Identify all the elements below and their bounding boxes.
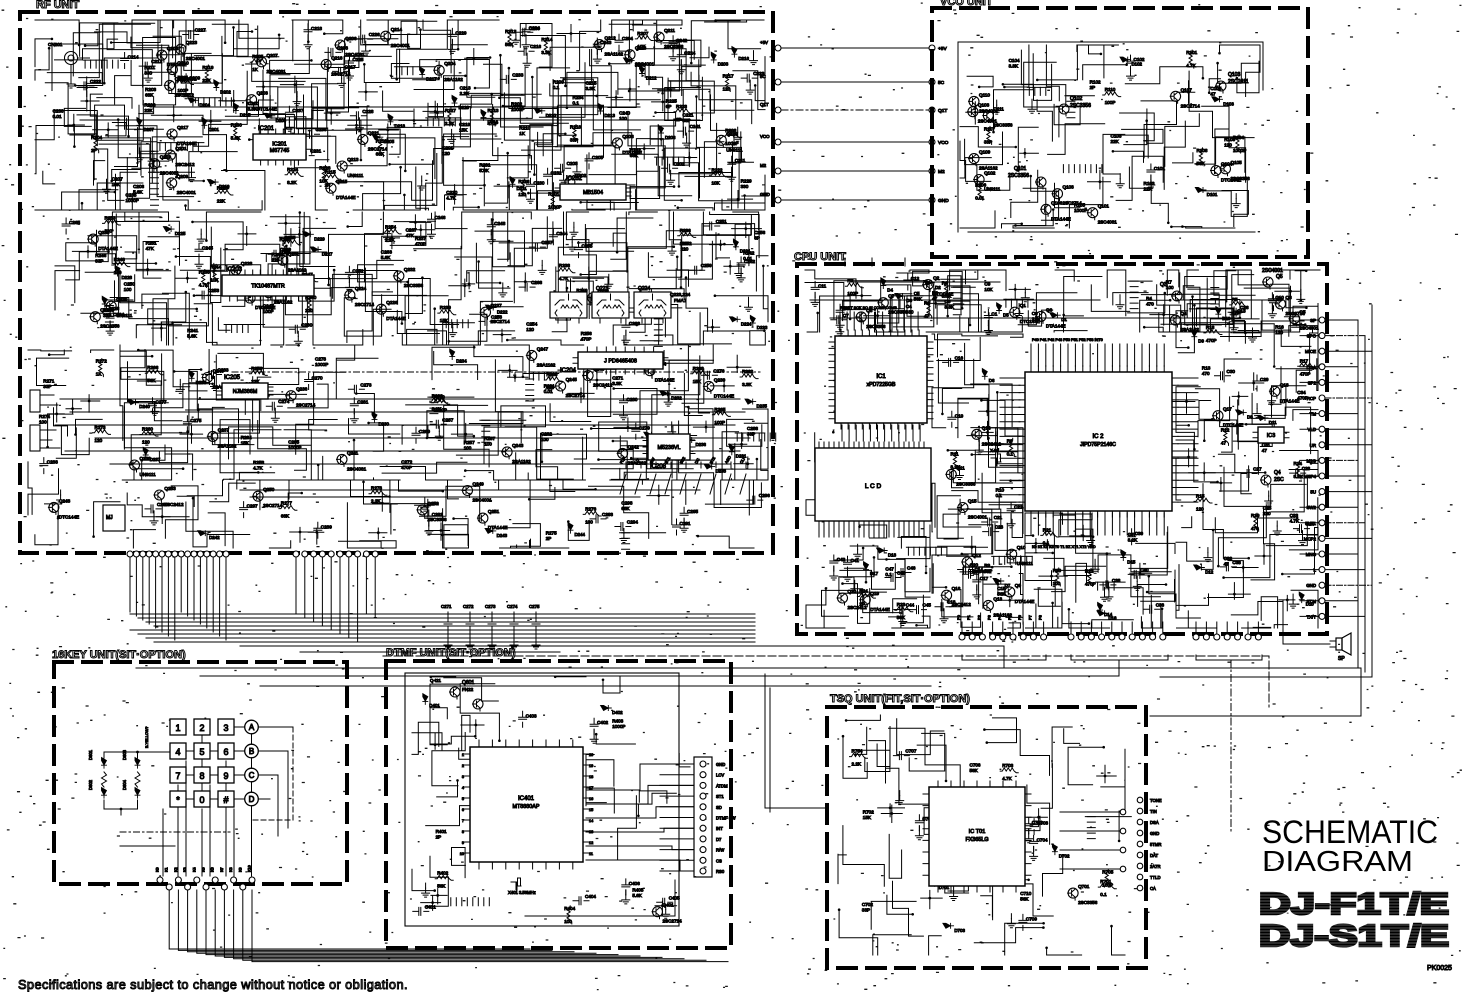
wire xyxy=(586,760,614,786)
capacitor C29 xyxy=(1253,375,1261,391)
svg-text:Q247: Q247 xyxy=(537,346,549,351)
diode D6 xyxy=(982,369,987,380)
wire xyxy=(115,275,135,302)
capacitor C40 xyxy=(1128,570,1144,578)
wire xyxy=(35,518,58,545)
wire xyxy=(432,733,465,786)
svg-text:D228: D228 xyxy=(122,275,133,280)
svg-text:C216: C216 xyxy=(530,44,541,49)
wire xyxy=(756,256,768,291)
IC MB1504 xyxy=(555,184,631,200)
wire xyxy=(150,106,640,108)
wire xyxy=(1222,423,1233,452)
svg-text:R275: R275 xyxy=(546,531,557,536)
wire xyxy=(143,38,176,88)
wire xyxy=(194,304,260,345)
wire xyxy=(339,541,382,548)
svg-text:120: 120 xyxy=(95,438,103,443)
wire xyxy=(534,126,551,175)
wire xyxy=(840,564,895,590)
ground xyxy=(896,796,904,805)
ground xyxy=(940,614,948,623)
svg-text:47K: 47K xyxy=(406,233,415,238)
svg-text:2SC4001: 2SC4001 xyxy=(968,515,988,520)
svg-text:33P: 33P xyxy=(95,259,103,264)
wire xyxy=(558,49,591,135)
wire xyxy=(567,72,618,107)
svg-text:C205: C205 xyxy=(592,155,603,160)
wire xyxy=(359,195,405,210)
wire xyxy=(561,277,640,308)
diode D603 xyxy=(122,749,140,768)
wire xyxy=(184,53,211,65)
svg-text:Q245: Q245 xyxy=(566,377,578,382)
svg-text:R215: R215 xyxy=(325,170,336,175)
svg-text:47: 47 xyxy=(1262,448,1268,453)
wire xyxy=(116,126,157,169)
node xyxy=(436,894,439,897)
wire xyxy=(1221,321,1305,337)
pin comb xyxy=(1098,582,1115,590)
svg-text:TONE: TONE xyxy=(1150,798,1162,803)
transistor Q206 xyxy=(335,40,345,50)
wire xyxy=(889,834,901,878)
pin comb xyxy=(585,297,602,305)
wire xyxy=(259,111,323,150)
wire xyxy=(258,421,307,471)
svg-text:2SC3356: 2SC3356 xyxy=(427,517,447,522)
ground xyxy=(1133,581,1141,590)
wire xyxy=(428,509,468,548)
ground xyxy=(605,279,613,288)
wire xyxy=(613,441,667,480)
pin comb xyxy=(446,320,468,328)
wire xyxy=(698,536,754,548)
wire xyxy=(106,123,126,136)
svg-text:1000P: 1000P xyxy=(612,724,625,729)
wire xyxy=(437,780,458,797)
resistor R224 xyxy=(285,172,303,177)
wire xyxy=(288,384,328,408)
connector column CN401 xyxy=(694,757,712,877)
wire xyxy=(664,345,713,363)
svg-text:4.7K: 4.7K xyxy=(559,276,569,281)
svg-text:R269: R269 xyxy=(546,372,557,377)
jack J202 xyxy=(30,390,58,412)
wire xyxy=(239,20,284,38)
wire bundle to bus xyxy=(129,557,131,612)
svg-text:2.2K: 2.2K xyxy=(385,237,395,242)
svg-text:16: 16 xyxy=(589,797,593,801)
wire xyxy=(493,105,532,170)
svg-text:Q9: Q9 xyxy=(1015,583,1022,588)
wire xyxy=(678,208,713,210)
svg-text:P3: P3 xyxy=(987,614,992,620)
svg-text:Q220: Q220 xyxy=(726,131,738,136)
svg-text:C42: C42 xyxy=(837,557,846,562)
wire xyxy=(1262,300,1291,330)
svg-text:R253: R253 xyxy=(105,215,116,220)
wire xyxy=(138,350,190,387)
wire xyxy=(629,43,679,91)
svg-text:NJM386M: NJM386M xyxy=(233,389,258,395)
wire xyxy=(499,480,530,528)
transistor Q16 xyxy=(942,590,952,600)
svg-text:D604: D604 xyxy=(122,779,127,790)
resistor R255 xyxy=(282,237,287,255)
wire xyxy=(1141,273,1179,295)
svg-text:100: 100 xyxy=(464,445,472,450)
wire xyxy=(1176,387,1200,426)
svg-text:J PD6465408: J PD6465408 xyxy=(604,359,637,365)
pin comb xyxy=(85,60,118,68)
svg-text:1000P: 1000P xyxy=(725,141,738,146)
wire xyxy=(1238,400,1259,474)
node xyxy=(391,237,394,240)
svg-text:R254: R254 xyxy=(385,224,396,229)
node xyxy=(661,101,664,104)
resistor R12 xyxy=(1224,427,1229,445)
wire xyxy=(686,278,708,332)
capacitor C249 xyxy=(268,250,284,258)
pin labels IC1 bottom xyxy=(842,425,920,441)
svg-text:1K: 1K xyxy=(252,67,259,72)
wire xyxy=(373,309,391,345)
svg-text:56K: 56K xyxy=(897,615,906,620)
svg-text:Q106: Q106 xyxy=(1051,200,1063,205)
wire xyxy=(64,108,91,126)
svg-text:2SC3356: 2SC3356 xyxy=(993,123,1013,128)
wire xyxy=(471,95,524,108)
transistor Q207 xyxy=(257,57,267,67)
transistor Q12 xyxy=(962,557,972,567)
node xyxy=(986,410,989,413)
wire xyxy=(111,20,160,43)
wire xyxy=(455,257,523,307)
diode D210 xyxy=(534,108,545,113)
wire xyxy=(1296,370,1312,392)
wire xyxy=(509,68,557,108)
wire xyxy=(220,420,275,473)
wire xyxy=(1054,529,1093,570)
node xyxy=(245,233,248,236)
capacitor C260 xyxy=(289,325,305,333)
svg-text:C5: C5 xyxy=(914,291,920,296)
wire xyxy=(212,24,248,56)
wire xyxy=(1209,79,1220,93)
node xyxy=(860,294,863,297)
wire xyxy=(822,580,855,616)
node xyxy=(1014,288,1017,291)
key switch 7 xyxy=(170,767,186,783)
wire xyxy=(453,207,478,210)
wire xyxy=(124,403,168,449)
svg-text:DTC144E: DTC144E xyxy=(255,305,275,310)
ground xyxy=(422,888,430,897)
diode D225 xyxy=(163,227,174,232)
wire xyxy=(406,278,423,314)
capacitor C703 xyxy=(941,800,949,816)
wire xyxy=(1220,466,1249,491)
transistor Q210 xyxy=(167,65,177,75)
svg-text:C: C xyxy=(249,771,255,780)
svg-text:K3: K3 xyxy=(183,867,187,872)
wire xyxy=(965,132,1003,165)
wire xyxy=(839,557,874,593)
svg-text:C406: C406 xyxy=(629,881,640,886)
transistor Q252 xyxy=(417,505,427,515)
capacitor C35 xyxy=(1220,563,1236,571)
svg-text:D18: D18 xyxy=(888,553,897,558)
bus wire to CPU xyxy=(240,646,1004,663)
svg-text:2: 2 xyxy=(462,764,464,768)
svg-text:22K: 22K xyxy=(1111,139,1120,144)
resistor R265 xyxy=(712,412,730,417)
wire xyxy=(149,350,210,433)
wire xyxy=(330,260,403,296)
wire xyxy=(148,237,179,266)
ground xyxy=(896,304,904,313)
svg-text:UN9111: UN9111 xyxy=(984,187,1001,192)
wire xyxy=(120,270,167,345)
wire xyxy=(1129,527,1168,569)
svg-text:220: 220 xyxy=(681,246,689,251)
wire xyxy=(664,148,699,200)
wire xyxy=(728,20,763,49)
ground xyxy=(271,413,279,422)
svg-text:R23: R23 xyxy=(897,602,906,607)
resistor R217 xyxy=(725,74,730,92)
wire xyxy=(1107,554,1143,615)
diode D232 xyxy=(660,391,671,396)
svg-text:2SC2714: 2SC2714 xyxy=(663,919,683,924)
svg-text:M5238VL: M5238VL xyxy=(657,445,680,451)
svg-text:R255: R255 xyxy=(280,237,291,242)
wire xyxy=(633,20,683,31)
wire xyxy=(292,20,308,42)
wire xyxy=(407,329,437,345)
svg-text:C279: C279 xyxy=(639,425,650,430)
wire xyxy=(189,152,237,181)
wire xyxy=(763,266,768,322)
wire xyxy=(952,491,1016,503)
wire xyxy=(1159,287,1200,332)
svg-text:C28: C28 xyxy=(1302,466,1311,471)
capacitor C230 xyxy=(527,178,535,194)
wire xyxy=(432,347,474,379)
wire xyxy=(948,276,961,316)
wire xyxy=(426,786,470,826)
wire xyxy=(1019,574,1023,625)
wire from C xyxy=(258,775,278,836)
ground xyxy=(570,227,578,236)
capacitor C402 xyxy=(590,718,598,734)
wire xyxy=(806,500,831,516)
wire xyxy=(443,331,515,345)
wire xyxy=(1290,270,1302,279)
wire xyxy=(131,45,162,86)
wire xyxy=(745,175,765,210)
wire xyxy=(122,407,171,480)
wire xyxy=(430,684,460,744)
wire xyxy=(237,480,260,510)
wire xyxy=(52,44,103,91)
capacitor C405 xyxy=(657,898,673,906)
pin comb xyxy=(908,547,947,555)
svg-text:D402: D402 xyxy=(612,710,623,715)
wire xyxy=(250,496,640,498)
capacitor C259 xyxy=(689,266,705,274)
wire xyxy=(336,358,378,398)
wire xyxy=(363,167,401,210)
svg-text:D16: D16 xyxy=(1108,615,1117,620)
wire xyxy=(629,20,665,51)
wire xyxy=(859,750,890,771)
node xyxy=(440,529,443,532)
node xyxy=(161,515,164,518)
ground xyxy=(1015,309,1023,318)
svg-text:DTA144E: DTA144E xyxy=(1015,599,1035,604)
diode D203 xyxy=(711,52,716,63)
amplifier cell Q222 xyxy=(592,292,629,323)
capacitor C245 xyxy=(195,243,203,259)
resistor R230 xyxy=(234,123,239,141)
svg-text:C270: C270 xyxy=(312,376,323,381)
svg-text:R256: R256 xyxy=(581,331,592,336)
node xyxy=(434,743,437,746)
transistor Q219 xyxy=(150,159,160,169)
transistor Q238 xyxy=(130,460,140,470)
svg-text:330: 330 xyxy=(741,184,749,189)
svg-text:C253: C253 xyxy=(208,288,219,293)
wire xyxy=(327,60,348,112)
svg-text:2SC2714: 2SC2714 xyxy=(1063,201,1083,206)
svg-text:C7: C7 xyxy=(843,313,849,318)
svg-text:470P: 470P xyxy=(401,465,412,470)
svg-text:Q103: Q103 xyxy=(1228,72,1240,78)
svg-text:Q232: Q232 xyxy=(404,267,416,272)
node xyxy=(453,193,456,196)
key switch 6 xyxy=(218,743,234,759)
wire xyxy=(647,436,697,469)
wire dash-dot xyxy=(120,831,230,833)
ground xyxy=(103,184,111,193)
wire xyxy=(1184,309,1233,325)
ground xyxy=(1230,323,1238,332)
diode D202 xyxy=(214,80,219,91)
capacitor C224 xyxy=(677,49,685,65)
wire xyxy=(943,499,981,527)
svg-text:470P: 470P xyxy=(1085,581,1096,586)
diode D217 xyxy=(420,67,425,78)
svg-text:Q3: Q3 xyxy=(1160,282,1167,288)
wire xyxy=(49,350,64,355)
wire xyxy=(944,286,970,325)
wire xyxy=(391,64,438,79)
pin labels IC2 bottom xyxy=(1031,513,1164,535)
bus wires xyxy=(130,613,755,615)
wire xyxy=(732,479,769,480)
wire xyxy=(938,359,968,403)
wire xyxy=(94,161,105,186)
capacitor C708 xyxy=(1030,819,1038,835)
wire xyxy=(1291,590,1318,628)
capacitor C709 xyxy=(1019,914,1027,930)
node xyxy=(472,57,475,60)
wire xyxy=(938,334,998,357)
wire xyxy=(674,212,725,244)
transistor Q202 xyxy=(565,177,575,187)
wire xyxy=(710,212,760,258)
wire xyxy=(1035,617,1058,628)
wire xyxy=(428,331,476,345)
wire xyxy=(28,462,32,515)
wire xyxy=(127,493,189,517)
svg-text:Q218: Q218 xyxy=(635,46,647,51)
wire xyxy=(536,450,558,480)
wire xyxy=(820,296,851,332)
svg-text:C101: C101 xyxy=(1154,166,1165,171)
wire xyxy=(835,548,863,560)
wire xyxy=(194,296,245,307)
resistor R705 xyxy=(1105,869,1110,887)
wire xyxy=(423,20,451,55)
wire xyxy=(1224,467,1306,506)
transistor Q701 xyxy=(1068,888,1078,898)
connector row xyxy=(157,877,163,883)
svg-text:R5: R5 xyxy=(1232,297,1238,302)
svg-text:R268: R268 xyxy=(693,366,704,371)
wire xyxy=(591,436,634,469)
wire xyxy=(235,35,280,49)
transistor Q246 xyxy=(203,373,213,383)
svg-text:Q15: Q15 xyxy=(968,499,977,504)
svg-text:C263: C263 xyxy=(381,250,392,255)
pin comb xyxy=(1029,87,1046,95)
wire xyxy=(449,314,487,341)
wire xyxy=(832,430,835,432)
diode D233 xyxy=(189,371,194,382)
svg-text:10K: 10K xyxy=(712,180,721,185)
wire xyxy=(183,20,225,43)
svg-text:M67745: M67745 xyxy=(270,148,289,154)
wire xyxy=(112,212,139,253)
svg-text:100P: 100P xyxy=(714,420,725,425)
svg-text:Q701: Q701 xyxy=(1078,884,1090,889)
capacitor C266 xyxy=(519,283,535,291)
node xyxy=(643,147,646,150)
wire xyxy=(1052,727,1072,767)
capacitor C234 xyxy=(517,28,533,36)
svg-text:22K: 22K xyxy=(144,108,153,113)
resistor R218 xyxy=(573,125,578,143)
wire xyxy=(153,384,213,408)
svg-text:D230: D230 xyxy=(379,421,390,426)
wire xyxy=(677,257,688,286)
wire xyxy=(312,56,392,154)
bus wire long right xyxy=(136,668,1361,716)
pin comb xyxy=(1067,96,1075,118)
svg-text:C235: C235 xyxy=(126,193,137,198)
transistor Q229 xyxy=(106,301,116,311)
wire xyxy=(80,119,700,121)
svg-text:2SA1162: 2SA1162 xyxy=(444,77,463,82)
resistor R201 xyxy=(551,192,556,210)
diode D206 xyxy=(659,125,664,136)
wire xyxy=(674,150,739,201)
svg-text:5C: 5C xyxy=(760,74,766,79)
wire xyxy=(141,142,194,197)
